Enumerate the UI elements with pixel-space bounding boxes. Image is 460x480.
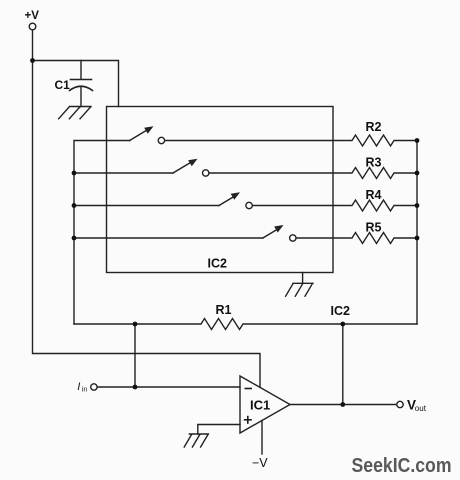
svg-text:IC1: IC1 (250, 398, 270, 413)
svg-text:−V: −V (252, 456, 268, 470)
svg-text:+V: +V (25, 10, 40, 22)
svg-text:SeekIC.com: SeekIC.com (352, 455, 452, 477)
svg-text:in: in (82, 386, 88, 393)
svg-text:IC2: IC2 (331, 304, 351, 318)
svg-text:I: I (77, 381, 80, 393)
svg-text:C1: C1 (55, 78, 71, 92)
svg-text:R4: R4 (366, 188, 382, 202)
svg-text:IC2: IC2 (208, 257, 228, 271)
svg-text:R3: R3 (366, 156, 382, 170)
svg-text:R2: R2 (366, 120, 382, 134)
svg-text:R1: R1 (216, 303, 232, 317)
svg-text:out: out (415, 404, 427, 413)
svg-text:R5: R5 (366, 221, 382, 235)
